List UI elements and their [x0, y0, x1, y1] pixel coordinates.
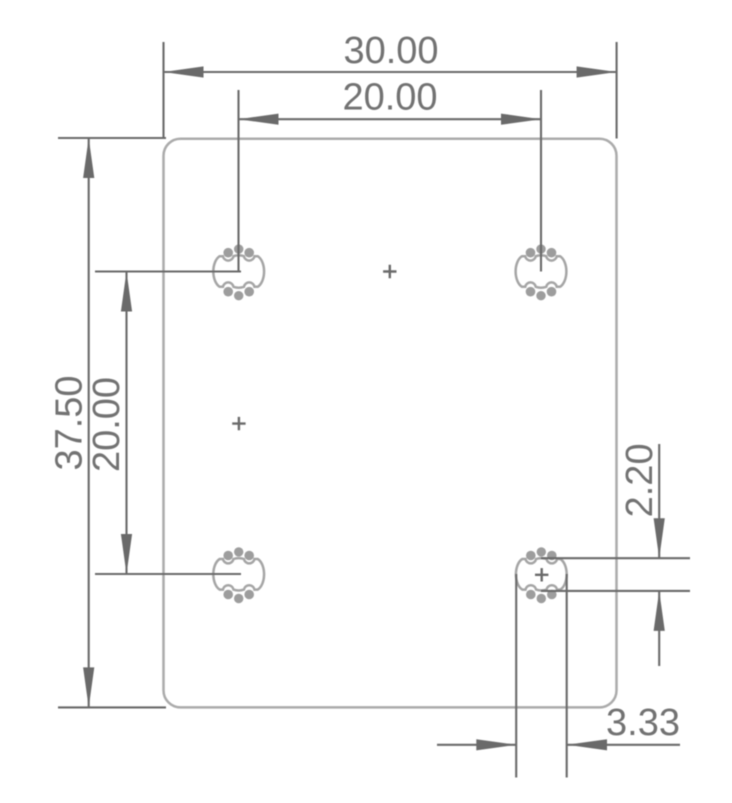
- dimension 37.50 up arrow: [83, 138, 94, 178]
- dimension 20.00 top right arrow: [501, 114, 541, 125]
- hole H3 bottom-left: [213, 547, 264, 603]
- svg-text:3.33: 3.33: [606, 702, 680, 744]
- hole H2 top-right: [516, 244, 567, 300]
- dimension 30.00 right arrow: [577, 66, 617, 77]
- dimension 20.00 left lower extension line: [95, 573, 241, 575]
- dimension 2.20 down arrow: [654, 518, 665, 558]
- dimension 3.33 right leader line: [567, 744, 680, 746]
- dimension 2.20 upper extension line: [541, 557, 690, 559]
- dimension 2.20 up arrow: [654, 591, 665, 631]
- dimension 20.00 top right extension line: [540, 90, 542, 272]
- dimension 3.33 left leader line: [437, 744, 516, 746]
- centre cross left: [232, 417, 245, 430]
- dimension 3.33 left extension line: [515, 574, 517, 778]
- dimension 37.50 bottom extension line: [58, 706, 166, 708]
- centre cross in hole H4: [535, 568, 548, 581]
- centre cross top: [383, 265, 396, 278]
- svg-text:37.50: 37.50: [49, 375, 91, 470]
- dimension 20.00 left line: [125, 272, 127, 575]
- svg-text:20.00: 20.00: [342, 77, 437, 119]
- dimension 20.00 top line: [239, 118, 542, 120]
- dimension 20.00 left down arrow: [121, 534, 132, 574]
- dimension 3.33 right extension line: [566, 574, 568, 778]
- dimension 2.20 lower extension line: [541, 590, 690, 592]
- dimension 30.00 line: [164, 71, 617, 73]
- svg-text:30.00: 30.00: [343, 30, 438, 72]
- dimension 20.00 top left extension line: [237, 90, 239, 272]
- svg-text:2.20: 2.20: [619, 443, 661, 517]
- dimension 2.20 upper leader line: [658, 444, 660, 558]
- hole H1 top-left: [213, 244, 264, 300]
- dimension 37.50 top extension line: [58, 137, 166, 139]
- hole H4 bottom-right: [516, 547, 567, 603]
- dimension 37.50 down arrow: [83, 667, 94, 707]
- dimension 2.20 lower leader line: [658, 591, 660, 666]
- svg-text:20.00: 20.00: [86, 377, 128, 472]
- dimension 3.33 right-pointing arrow: [476, 739, 516, 750]
- dimension 20.00 top left arrow: [239, 114, 279, 125]
- dimension 20.00 left upper extension line: [95, 270, 241, 272]
- dimension 30.00 left arrow: [164, 66, 204, 77]
- dimension 20.00 left up arrow: [121, 272, 132, 312]
- dimension 37.50 line: [88, 138, 90, 707]
- dimension 3.33 left-pointing arrow: [567, 739, 607, 750]
- dimension 30.00 left extension line: [162, 42, 164, 139]
- plate outline: [164, 139, 617, 708]
- dimension 30.00 right extension line: [616, 42, 618, 139]
